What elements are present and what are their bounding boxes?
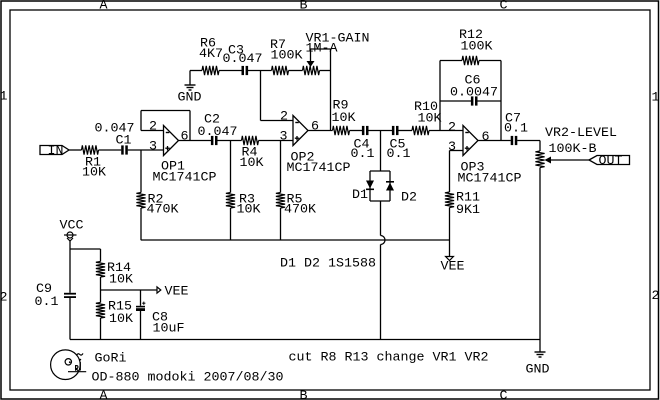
VR2 wiper arrow <box>545 157 552 164</box>
svg-text:2: 2 <box>280 109 288 124</box>
svg-text:2: 2 <box>149 119 157 134</box>
svg-text:1: 1 <box>0 90 8 105</box>
svg-text:VCC: VCC <box>60 218 84 233</box>
resistor R10 10K <box>412 126 429 135</box>
svg-text:B: B <box>300 0 308 13</box>
wire OP2 pin2 <box>261 120 294 122</box>
svg-text:6: 6 <box>311 119 319 134</box>
svg-text:470K: 470K <box>147 203 179 218</box>
svg-text:0.1: 0.1 <box>504 121 528 136</box>
wire R4 to OP2 pin3, junction at R5 <box>259 140 294 142</box>
potentiometer VR1-GAIN 1M-A <box>303 66 320 75</box>
ground symbol GND (R6) <box>189 71 191 86</box>
capacitor C2 0.047 <box>211 136 214 145</box>
svg-text:100K-B: 100K-B <box>549 142 597 157</box>
wire R1 to C1 <box>99 149 122 151</box>
resistor R12 100K (feedback) <box>440 60 462 62</box>
svg-text:0.047: 0.047 <box>223 52 263 67</box>
svg-text:VR2-LEVEL: VR2-LEVEL <box>545 126 617 141</box>
wire R7 to VR1 <box>289 70 303 72</box>
diode D2 1S1588 <box>386 181 394 183</box>
resistor R1 10K <box>82 145 99 154</box>
resistor R14 10K <box>96 262 105 278</box>
diode D1 1S1588 <box>366 181 374 189</box>
svg-text:D1: D1 <box>352 188 368 203</box>
svg-text:9K1: 9K1 <box>456 203 480 218</box>
svg-text:D2: D2 <box>401 191 417 206</box>
wire R9 to C4 <box>350 130 363 132</box>
wire feedback left vertical to OP3 pin2 <box>439 61 441 131</box>
resistor R15 10K <box>96 303 105 319</box>
VEE arrow symbol below bias bus <box>449 240 451 257</box>
svg-text:A: A <box>100 389 108 400</box>
wire C1 to OP1 pin3, junction at R2 <box>128 149 164 151</box>
wire OP1 output to C2 <box>179 140 212 142</box>
wire VR1 wiper to output node <box>311 48 331 50</box>
resistor R4 10K <box>242 136 259 145</box>
wire C9 to ground bus <box>69 298 71 340</box>
ground bus wire <box>70 339 540 341</box>
svg-text:MC1741CP: MC1741CP <box>287 161 351 176</box>
svg-text:10uF: 10uF <box>153 321 185 336</box>
wire signal node down to diode pair <box>380 131 382 172</box>
wire OP3 pin3 to R11 <box>450 150 464 152</box>
svg-text:IN: IN <box>48 144 64 159</box>
capacitor C1 0.047 <box>121 145 124 154</box>
capacitor C6 0.0047 (feedback) <box>440 100 471 102</box>
wire VR2 wiper to OUT <box>551 159 589 161</box>
wire C2 to R4, junction at R3 <box>217 140 241 142</box>
wire feedback right vertical to OP3 output <box>500 61 502 141</box>
svg-text:6: 6 <box>482 130 490 145</box>
bias bus wire (VEE rail) <box>141 239 450 241</box>
capacitor C4 0.1 <box>362 126 365 135</box>
op-amp OP1 MC1741CP <box>164 126 179 156</box>
wire C8 to ground bus <box>140 311 142 340</box>
svg-text:10K: 10K <box>109 312 133 327</box>
svg-text:100K: 100K <box>461 39 493 54</box>
svg-text:C: C <box>500 0 508 13</box>
capacitor C7 0.1 <box>511 136 514 145</box>
svg-text:C1: C1 <box>116 133 132 148</box>
wire VCC branch to R14 <box>70 248 101 250</box>
svg-text:OD-880 modoki 2007/08/30: OD-880 modoki 2007/08/30 <box>92 371 284 386</box>
svg-text:MC1741CP: MC1741CP <box>458 172 522 187</box>
wire VCC down left vertical <box>69 241 71 293</box>
svg-text:0.1: 0.1 <box>35 295 59 310</box>
svg-text:2: 2 <box>0 290 8 305</box>
wire OP1 pin2 <box>141 130 164 132</box>
resistor R11 9K1 <box>445 192 454 208</box>
GoRi logo stamp <box>51 350 87 380</box>
svg-text:2: 2 <box>448 120 456 135</box>
svg-text:VEE: VEE <box>441 260 465 275</box>
wire R14/R15 junction to VEE arrow <box>101 289 158 291</box>
VEE arrow symbol (bias output) <box>157 287 161 293</box>
wire VR2 bottom to ground bus <box>539 168 541 340</box>
svg-text:OUT: OUT <box>599 154 623 169</box>
svg-text:3: 3 <box>280 129 288 144</box>
wire IN to R1 <box>69 149 82 151</box>
svg-text:0.1: 0.1 <box>387 147 411 162</box>
svg-text:GND: GND <box>526 362 550 377</box>
svg-text:C: C <box>500 389 508 400</box>
svg-text:6: 6 <box>181 129 189 144</box>
svg-text:GoRi: GoRi <box>95 352 127 367</box>
ground symbol GND (bottom right) <box>539 340 541 353</box>
wire OP3 output to C7 <box>478 140 511 142</box>
wire diode pair down to ground bus with hop over bias bus <box>380 201 382 236</box>
svg-text:D1 D2 1S1588: D1 D2 1S1588 <box>280 256 376 271</box>
svg-text:10K: 10K <box>240 156 264 171</box>
resistor R6 4K7 <box>202 66 219 75</box>
svg-text:3: 3 <box>149 139 157 154</box>
wire node to OP2 pin2 (vertical) <box>260 71 262 121</box>
wire C5 to R10 <box>398 130 412 132</box>
wire R6 to C3 <box>219 70 242 72</box>
connector IN <box>40 146 69 155</box>
wire OP1 feedback loop (pin2 to output) <box>140 111 142 131</box>
capacitor C3 0.047 <box>242 66 245 75</box>
wire C7 to VR2 <box>517 140 540 142</box>
wire GND to R6 <box>190 70 202 72</box>
resistor R7 100K <box>272 66 289 75</box>
diode pair frame wires <box>370 170 390 172</box>
svg-text:4K7: 4K7 <box>199 47 223 62</box>
op-amp OP3 MC1741CP <box>463 126 478 156</box>
svg-text:1: 1 <box>652 91 660 106</box>
resistor R9 10K <box>333 126 350 135</box>
wire VR1 right terminal <box>320 70 331 72</box>
svg-text:0.0047: 0.0047 <box>450 85 498 100</box>
svg-text:0.1: 0.1 <box>351 147 375 162</box>
svg-text:470K: 470K <box>284 203 316 218</box>
capacitor C5 0.1 <box>392 126 395 135</box>
svg-text:10K: 10K <box>237 203 261 218</box>
capacitor C9 0.1 <box>64 293 76 295</box>
svg-text:cut R8 R13 change VR1 VR2: cut R8 R13 change VR1 VR2 <box>289 350 489 365</box>
wire C4 to C5, junction to diodes <box>368 130 392 132</box>
svg-text:2: 2 <box>652 289 660 304</box>
svg-text:10K: 10K <box>82 166 106 181</box>
svg-text:10K: 10K <box>332 111 356 126</box>
capacitor C8 10uF (electrolytic) <box>140 290 142 306</box>
svg-text:0.047: 0.047 <box>198 125 238 140</box>
resistor R3 10K (to bias bus) <box>230 141 232 193</box>
svg-text:A: A <box>100 0 108 13</box>
svg-text:10K: 10K <box>418 112 442 127</box>
wire OP2 output to R9 <box>308 130 333 132</box>
potentiometer VR2-LEVEL 100K-B <box>535 151 544 168</box>
resistor R2 470K (to bias bus) <box>140 150 142 193</box>
wire C3 to R7, junction node to OP2 pin2 <box>248 70 272 72</box>
svg-text:10K: 10K <box>109 272 133 287</box>
resistor R5 470K (to bias bus) <box>280 141 282 193</box>
svg-text:MC1741CP: MC1741CP <box>153 171 217 186</box>
op-amp OP2 MC1741CP <box>293 116 308 146</box>
svg-text:GND: GND <box>178 90 202 105</box>
connector OUT <box>589 156 630 165</box>
svg-text:100K: 100K <box>271 49 303 64</box>
svg-text:VEE: VEE <box>165 285 189 300</box>
svg-text:B: B <box>300 389 308 400</box>
wire R10 to OP3 pin2, junction at R12 loop <box>429 130 463 132</box>
